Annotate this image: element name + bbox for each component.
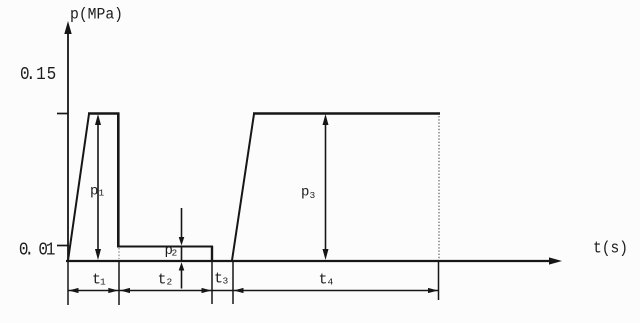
- p2 upper arrowhead down: [179, 237, 185, 246]
- wire: pulse1 falling edge: [117, 113, 120, 247]
- p axis (vertical): [67, 30, 69, 261]
- wire: step down at end of t2: [211, 246, 213, 261]
- p2 lower arrow shaft: [181, 269, 183, 289]
- dim arrowhead right at t4 end: [428, 288, 438, 293]
- svg-text:2: 2: [172, 247, 178, 258]
- wire: low level 0.01 segment: [117, 246, 213, 248]
- label 0.01: [19, 239, 56, 261]
- label 0.15: [20, 64, 56, 86]
- p1 arrowhead up: [95, 114, 101, 125]
- svg-text:t: t: [158, 272, 167, 289]
- dim arrowhead left at origin: [69, 288, 79, 293]
- svg-text:1: 1: [100, 277, 106, 288]
- svg-text:3: 3: [223, 276, 229, 287]
- t axis arrowhead: [549, 257, 562, 264]
- dim arrowhead left at t3 end outside: [234, 288, 244, 293]
- t axis (horizontal): [66, 260, 551, 262]
- svg-text:4: 4: [328, 277, 334, 288]
- dotted extension at t1/t2 boundary: [118, 248, 120, 259]
- p1 arrowhead down: [95, 249, 101, 260]
- svg-text:3: 3: [310, 190, 316, 201]
- p axis arrowhead: [64, 21, 71, 34]
- p2 upper arrow shaft: [181, 208, 183, 239]
- extension line t3/t4: [232, 262, 234, 304]
- svg-text:0.15: 0.15: [20, 64, 56, 86]
- dotted drop line at end of pulse2: [438, 116, 440, 259]
- extension line t1/t2: [118, 262, 120, 305]
- tick 0.01: [57, 245, 69, 247]
- wire: pulse1 rising edge: [68, 114, 89, 261]
- wire: pulse1 top: [88, 112, 120, 114]
- extension line below origin: [67, 262, 69, 305]
- svg-text:2: 2: [167, 277, 173, 288]
- svg-text:p(MPa): p(MPa): [70, 6, 123, 24]
- p3 arrowhead up: [323, 114, 329, 125]
- svg-text:p: p: [301, 185, 309, 201]
- wire: pulse2 rising edge: [232, 114, 254, 261]
- svg-text:t(s): t(s): [593, 239, 628, 258]
- tick 0.15: [57, 113, 68, 115]
- p2 lower arrowhead up: [179, 262, 185, 270]
- dimension line t1..t4: [69, 290, 439, 292]
- p3 dimension arrow shaft: [325, 122, 327, 252]
- svg-text:p: p: [90, 184, 98, 200]
- extension line t4 end: [438, 262, 440, 300]
- p2 crossing segment: [181, 247, 183, 262]
- svg-text:1: 1: [99, 187, 105, 198]
- p1 dimension arrow shaft: [97, 122, 99, 252]
- dim arrowhead right at t1 end: [108, 288, 118, 293]
- dim arrowhead left at t2 start: [120, 288, 130, 293]
- dim arrowhead right at t2 end: [202, 288, 212, 293]
- p3 arrowhead down: [323, 249, 329, 260]
- wire: pulse2 top: [253, 112, 440, 114]
- extension line t2/t3: [211, 262, 213, 304]
- svg-text:t: t: [319, 272, 328, 289]
